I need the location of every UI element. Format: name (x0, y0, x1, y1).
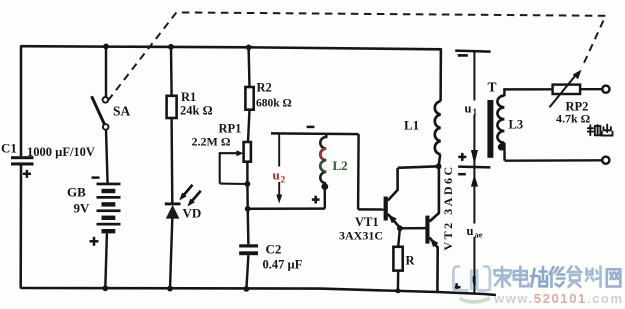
svg-text:GB: GB (67, 185, 86, 200)
svg-text:VT2 3AD6C: VT2 3AD6C (441, 164, 455, 250)
node top rail / R1 branch (168, 44, 174, 50)
transistor VT1 emitter lead with arrow (388, 214, 400, 228)
switch SA lower contact (103, 124, 109, 130)
watermark char wang (607, 269, 621, 286)
svg-text:ae: ae (475, 230, 483, 240)
watermark char xiu (550, 267, 565, 287)
svg-text:VT1: VT1 (355, 215, 379, 229)
svg-text:C2: C2 (266, 242, 282, 257)
transistor VT2 collector lead (430, 166, 439, 221)
watermark char wei (531, 267, 547, 287)
plus sign bottom (453, 283, 461, 291)
inductor L1 (435, 101, 441, 154)
wire R1 branch upper (170, 47, 173, 96)
polarity dot L2 (321, 183, 328, 190)
wire R1 to VD (170, 118, 173, 204)
minus sign above L2 (307, 126, 315, 129)
switch SA lever (92, 96, 105, 124)
wire bottom rail (21, 288, 496, 295)
potentiometer RP1 body (244, 142, 251, 162)
svg-text:2.2M Ω: 2.2M Ω (192, 135, 231, 149)
svg-text:T: T (488, 80, 497, 95)
transistor VT1 collector lead (388, 168, 398, 201)
battery GB minus sign (92, 176, 100, 179)
wire L3 bottom down (503, 143, 506, 161)
wire L3 top (503, 88, 505, 96)
svg-text:L3: L3 (509, 118, 524, 132)
resistor R (393, 247, 402, 271)
transformer T core (487, 100, 493, 158)
svg-text:C1: C1 (1, 141, 17, 156)
voltage annotation mid bar (458, 165, 490, 168)
wire VT1 collector horizontal (398, 166, 439, 168)
resistor R2 (245, 87, 253, 110)
node bottom rail / R branch (395, 288, 400, 293)
svg-text:L1: L1 (404, 118, 419, 133)
wire node to node (246, 184, 249, 209)
wire L2 bar right end down (357, 134, 360, 209)
wire VT1 emitter to VT2 base (400, 227, 426, 230)
battery GB plates (97, 183, 121, 234)
svg-text:9V: 9V (74, 201, 91, 216)
wire C2 node to L2 bottom (248, 207, 325, 210)
svg-text:VD: VD (183, 206, 202, 221)
minus sign uae top (458, 173, 466, 176)
light arrow 2 into VD (187, 191, 200, 207)
node bottom rail / battery branch (102, 285, 108, 291)
wire left rail lower (19, 166, 22, 289)
svg-text:R2: R2 (257, 81, 272, 95)
capacitor C2 (239, 244, 258, 255)
dashed mechanical link (108, 12, 606, 100)
watermark char dian (514, 267, 529, 287)
label u1 (463, 101, 480, 118)
inductor L2 (320, 134, 326, 183)
wire VD to bottom rail (170, 218, 172, 288)
output terminal bottom (602, 157, 609, 164)
node top rail / R2 branch (246, 45, 252, 51)
polarity dot L3 (498, 143, 505, 150)
wire top rail corner down to L1 (439, 48, 442, 101)
plus sign u1 bottom (458, 153, 466, 161)
wire node to C2 (246, 209, 249, 245)
resistor R1 (167, 96, 177, 118)
wire R2 branch upper (247, 47, 250, 87)
wire R to bottom rail (397, 271, 400, 291)
arrowhead uae bottom down (471, 276, 478, 289)
watermark char liao (586, 267, 601, 287)
photodiode VD (165, 204, 181, 219)
rheostat RP2 body (553, 85, 581, 94)
node collector junction L1 bottom (436, 163, 442, 169)
transistor VT2 emitter lead with arrow (430, 238, 439, 292)
voltage annotation vertical line (473, 51, 475, 293)
arrowhead uae up (471, 174, 478, 186)
wire SA to battery (106, 130, 108, 184)
node RP1 bottom (245, 181, 251, 187)
arrowhead u1 down (471, 150, 478, 165)
wire C2 to bottom rail (246, 255, 248, 289)
minus sign u1 top (458, 54, 468, 57)
wire L3 bottom to terminal (505, 159, 603, 162)
watermark char jia (495, 267, 511, 287)
wire L3 top to RP2 (503, 88, 552, 91)
wire left rail upper (20, 45, 23, 156)
wire SA branch upper (105, 46, 107, 97)
inductor L3 (497, 96, 504, 143)
node C2 top junction (245, 206, 251, 212)
node bottom rail / C2 branch (244, 286, 250, 292)
wire L2 top bar (271, 132, 359, 135)
battery GB plus sign (90, 237, 99, 246)
svg-text:1000 µF/10V: 1000 µF/10V (27, 145, 95, 159)
RP1 wiper arrow (219, 150, 244, 156)
watermark book logo (453, 266, 490, 290)
node VT1 emitter junction (397, 225, 403, 231)
svg-text:680k Ω: 680k Ω (256, 98, 292, 110)
svg-text:u: u (465, 102, 472, 116)
label u2 (271, 167, 288, 186)
output terminal top (602, 86, 609, 93)
voltage annotation top bar (455, 51, 490, 52)
label uae (465, 224, 487, 240)
wire L1 bottom to node (439, 154, 441, 166)
svg-text:2: 2 (281, 176, 286, 186)
svg-text:4.7k Ω: 4.7k Ω (556, 112, 591, 126)
voltage arrow u2 (276, 134, 282, 204)
svg-text:SA: SA (113, 104, 131, 119)
RP2 arrow (550, 70, 582, 108)
plus sign at L2 bottom (312, 196, 320, 204)
transistor VT1 base bar (384, 197, 388, 221)
wire top rail (21, 46, 441, 49)
svg-text:3AX31C: 3AX31C (339, 229, 383, 243)
svg-text:24k Ω: 24k Ω (180, 104, 213, 118)
svg-text:R1: R1 (181, 90, 196, 104)
wire RP2 to terminal (580, 88, 602, 90)
wire R2 to RP1 (248, 110, 250, 142)
svg-text:0.47 µF: 0.47 µF (263, 258, 303, 272)
svg-text:u: u (467, 224, 474, 238)
svg-text:u: u (273, 168, 280, 183)
transistor VT2 base bar (425, 216, 429, 244)
svg-text:R: R (406, 254, 416, 268)
wire RP1 wiper loop horizontal (220, 183, 248, 185)
wire battery to bottom rail (105, 233, 107, 288)
node bottom rail / VD branch (167, 286, 173, 292)
wire to VT1 base (358, 208, 384, 211)
capacitor C1 (11, 156, 34, 178)
wire RP1 wiper loop vertical (219, 153, 221, 183)
svg-text:RP1: RP1 (219, 122, 242, 136)
switch SA upper contact (103, 97, 109, 103)
svg-text:www.520101.com: www.520101.com (493, 291, 624, 306)
svg-text:L2: L2 (333, 158, 348, 173)
node top rail / SA branch (103, 44, 109, 50)
light arrow 1 into VD (179, 185, 192, 201)
wire RP1 to node (246, 162, 248, 184)
wire L2 bottom (324, 190, 326, 209)
svg-text:1: 1 (473, 107, 478, 117)
watermark green swoosh (460, 298, 491, 302)
watermark char zi (568, 267, 582, 287)
label shuchu output (588, 125, 613, 136)
wire emitter node down to R (398, 228, 400, 247)
